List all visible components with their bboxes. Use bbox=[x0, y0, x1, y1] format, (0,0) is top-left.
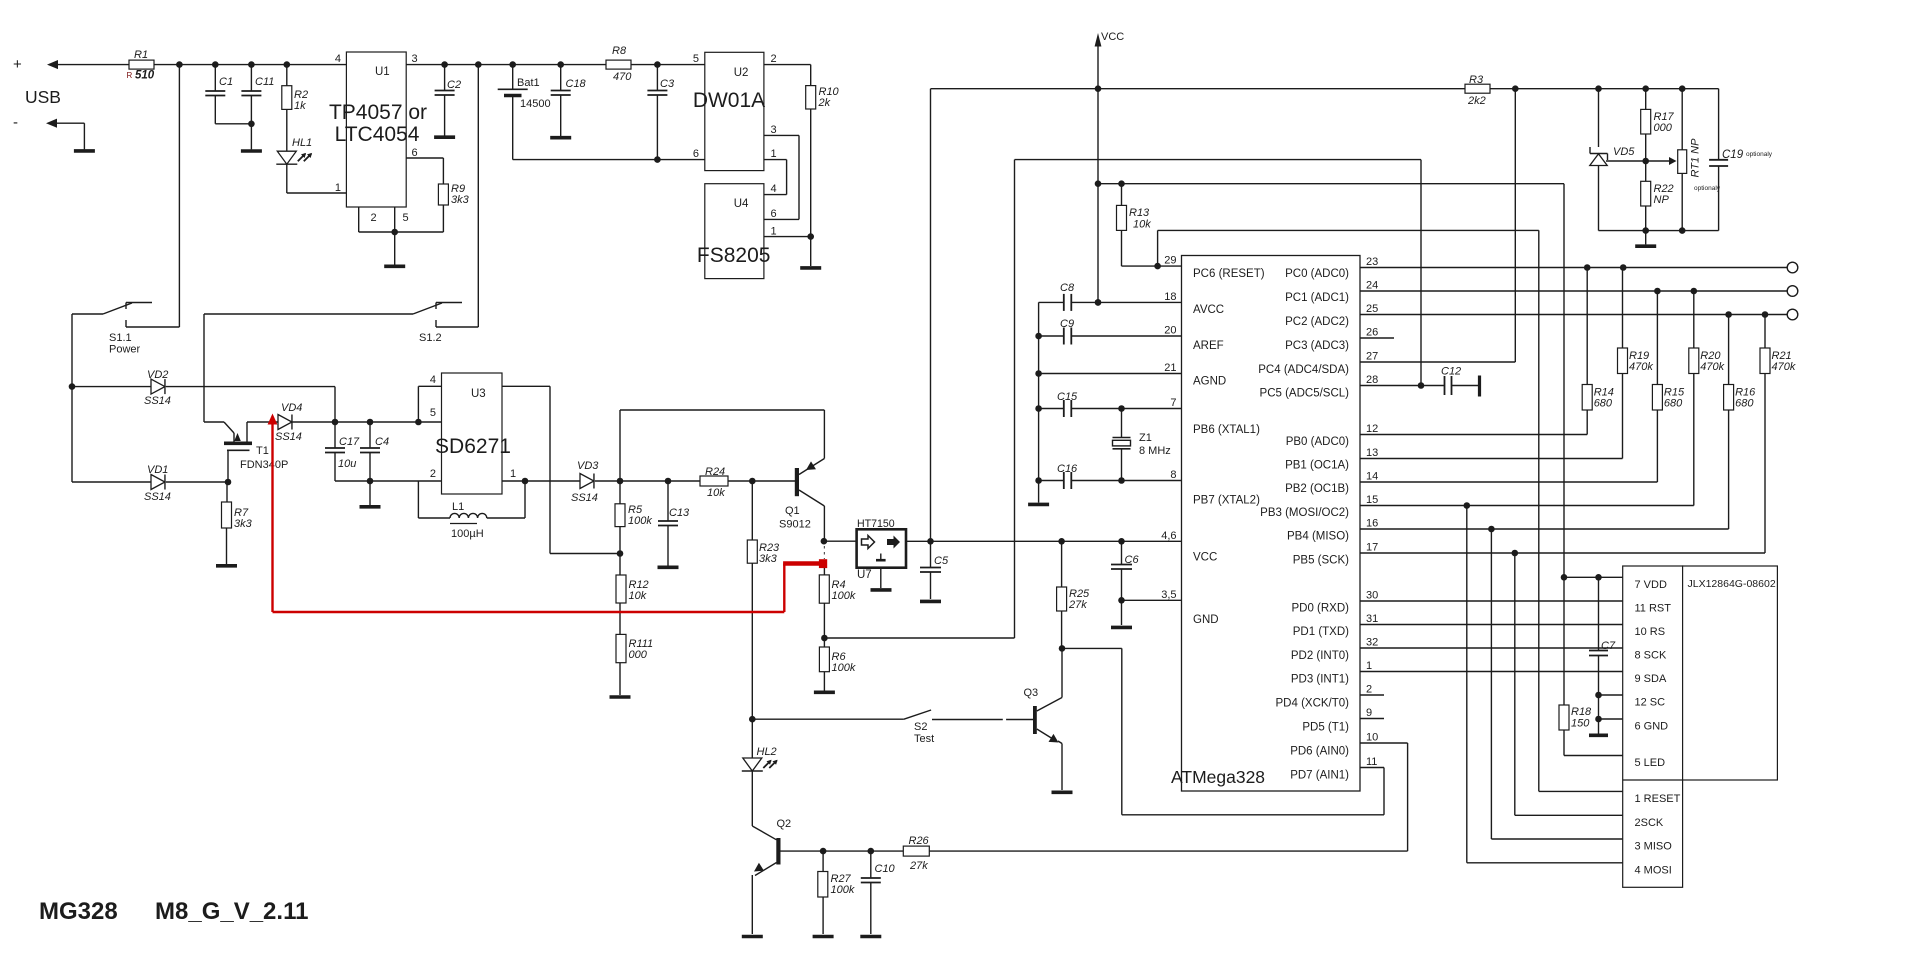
svg-text:Test: Test bbox=[914, 733, 934, 745]
svg-text:100µH: 100µH bbox=[451, 528, 484, 540]
svg-text:R3: R3 bbox=[1469, 74, 1484, 86]
svg-text:10k: 10k bbox=[629, 590, 647, 602]
svg-text:U7: U7 bbox=[857, 569, 872, 581]
svg-text:PD1 (TXD): PD1 (TXD) bbox=[1293, 626, 1349, 638]
svg-text:HL2: HL2 bbox=[757, 746, 777, 758]
svg-text:C2: C2 bbox=[447, 79, 461, 91]
svg-text:optionaly: optionaly bbox=[1694, 185, 1721, 192]
svg-text:5: 5 bbox=[403, 212, 409, 224]
svg-text:5 LED: 5 LED bbox=[1635, 757, 1666, 769]
svg-text:470k: 470k bbox=[1772, 361, 1796, 373]
svg-text:PD6 (AIN0): PD6 (AIN0) bbox=[1290, 746, 1349, 758]
svg-text:7 VDD: 7 VDD bbox=[1635, 579, 1667, 591]
svg-text:23: 23 bbox=[1366, 256, 1378, 268]
svg-text:U3: U3 bbox=[471, 388, 486, 400]
svg-text:17: 17 bbox=[1366, 542, 1378, 554]
svg-text:3,5: 3,5 bbox=[1161, 589, 1176, 601]
svg-text:C12: C12 bbox=[1441, 366, 1461, 378]
svg-text:VD4: VD4 bbox=[281, 402, 302, 414]
svg-text:10k: 10k bbox=[707, 487, 725, 499]
svg-text:+: + bbox=[13, 56, 22, 73]
svg-text:PD5 (T1): PD5 (T1) bbox=[1302, 722, 1349, 734]
svg-text:VCC: VCC bbox=[1193, 552, 1217, 564]
svg-text:9 SDA: 9 SDA bbox=[1635, 673, 1667, 685]
svg-text:Z1: Z1 bbox=[1139, 432, 1152, 444]
svg-text:1: 1 bbox=[510, 468, 516, 480]
svg-text:24: 24 bbox=[1366, 280, 1378, 292]
svg-text:6: 6 bbox=[771, 208, 777, 220]
svg-text:470k: 470k bbox=[1629, 361, 1653, 373]
svg-text:C11: C11 bbox=[255, 76, 274, 88]
svg-text:FDN340P: FDN340P bbox=[240, 459, 288, 471]
svg-text:R8: R8 bbox=[612, 45, 627, 57]
svg-text:10k: 10k bbox=[1133, 219, 1151, 231]
svg-text:15: 15 bbox=[1366, 494, 1378, 506]
svg-text:470: 470 bbox=[613, 71, 632, 83]
svg-text:1: 1 bbox=[1366, 660, 1372, 672]
svg-text:6 GND: 6 GND bbox=[1635, 721, 1669, 733]
svg-text:3: 3 bbox=[771, 124, 777, 136]
svg-text:PC1 (ADC1): PC1 (ADC1) bbox=[1285, 292, 1349, 304]
svg-text:5: 5 bbox=[693, 53, 699, 65]
svg-text:-: - bbox=[13, 114, 18, 131]
svg-text:PB0 (ADC0): PB0 (ADC0) bbox=[1286, 436, 1349, 448]
svg-text:28: 28 bbox=[1366, 374, 1378, 386]
svg-text:680: 680 bbox=[1735, 398, 1754, 410]
svg-text:optionaly: optionaly bbox=[1746, 151, 1773, 158]
svg-text:SS14: SS14 bbox=[144, 395, 171, 407]
svg-text:Power: Power bbox=[109, 344, 141, 356]
svg-text:4: 4 bbox=[771, 183, 777, 195]
svg-text:16: 16 bbox=[1366, 518, 1378, 530]
svg-text:TP4057 or: TP4057 or bbox=[329, 101, 427, 124]
svg-text:150: 150 bbox=[1571, 718, 1590, 730]
svg-text:NP: NP bbox=[1654, 194, 1670, 206]
svg-text:VD2: VD2 bbox=[147, 369, 168, 381]
svg-text:VD3: VD3 bbox=[577, 460, 599, 472]
svg-text:20: 20 bbox=[1164, 325, 1176, 337]
svg-text:SS14: SS14 bbox=[144, 491, 171, 503]
svg-text:470k: 470k bbox=[1700, 361, 1724, 373]
svg-text:SD6271: SD6271 bbox=[435, 435, 511, 458]
svg-text:PB5 (SCK): PB5 (SCK) bbox=[1293, 555, 1349, 567]
svg-text:C1: C1 bbox=[219, 76, 233, 88]
svg-text:S1.2: S1.2 bbox=[419, 332, 442, 344]
svg-text:3k3: 3k3 bbox=[234, 518, 253, 530]
svg-text:C15: C15 bbox=[1057, 391, 1078, 403]
svg-text:U4: U4 bbox=[734, 198, 749, 210]
svg-text:680: 680 bbox=[1594, 398, 1613, 410]
svg-text:25: 25 bbox=[1366, 303, 1378, 315]
svg-text:6: 6 bbox=[412, 147, 418, 159]
svg-text:C17: C17 bbox=[339, 436, 360, 448]
svg-text:PB4 (MISO): PB4 (MISO) bbox=[1287, 531, 1349, 543]
svg-text:VCC: VCC bbox=[1101, 31, 1124, 43]
svg-text:VD5: VD5 bbox=[1613, 146, 1635, 158]
svg-text:DW01A: DW01A bbox=[693, 89, 765, 112]
svg-text:PC6 (RESET): PC6 (RESET) bbox=[1193, 268, 1265, 280]
svg-text:2: 2 bbox=[371, 212, 377, 224]
svg-text:C8: C8 bbox=[1060, 282, 1075, 294]
svg-text:SS14: SS14 bbox=[275, 431, 302, 443]
svg-text:R1: R1 bbox=[134, 49, 148, 61]
svg-text:Bat1: Bat1 bbox=[517, 77, 540, 89]
svg-text:Q3: Q3 bbox=[1024, 687, 1039, 699]
svg-text:1: 1 bbox=[335, 182, 341, 194]
svg-text:3 MISO: 3 MISO bbox=[1635, 841, 1673, 853]
svg-text:8: 8 bbox=[1170, 469, 1176, 481]
svg-text:S1.1: S1.1 bbox=[109, 332, 132, 344]
svg-text:LTC4054: LTC4054 bbox=[335, 123, 420, 146]
svg-text:PD0 (RXD): PD0 (RXD) bbox=[1291, 603, 1349, 615]
svg-text:C6: C6 bbox=[1125, 554, 1140, 566]
svg-text:680: 680 bbox=[1664, 398, 1683, 410]
svg-text:AVCC: AVCC bbox=[1193, 304, 1224, 316]
svg-text:PC0 (ADC0): PC0 (ADC0) bbox=[1285, 268, 1349, 280]
svg-text:PC4 (ADC4/SDA): PC4 (ADC4/SDA) bbox=[1258, 364, 1349, 376]
svg-text:11: 11 bbox=[1366, 756, 1377, 768]
svg-text:SS14: SS14 bbox=[571, 492, 598, 504]
svg-text:2: 2 bbox=[1366, 684, 1372, 696]
svg-text:HT7150: HT7150 bbox=[857, 518, 895, 530]
svg-text:30: 30 bbox=[1366, 590, 1378, 602]
svg-text:C4: C4 bbox=[375, 436, 389, 448]
svg-text:32: 32 bbox=[1366, 637, 1378, 649]
svg-text:C13: C13 bbox=[669, 507, 690, 519]
svg-text:C19: C19 bbox=[1722, 149, 1744, 161]
svg-text:2: 2 bbox=[430, 468, 436, 480]
svg-text:C9: C9 bbox=[1060, 318, 1074, 330]
svg-text:27k: 27k bbox=[909, 860, 928, 872]
svg-text:PC5 (ADC5/SCL): PC5 (ADC5/SCL) bbox=[1260, 388, 1350, 400]
svg-text:4: 4 bbox=[335, 53, 341, 65]
svg-text:PC3 (ADC3): PC3 (ADC3) bbox=[1285, 340, 1349, 352]
svg-text:RT1 NP: RT1 NP bbox=[1690, 138, 1702, 178]
svg-text:31: 31 bbox=[1366, 613, 1378, 625]
svg-text:100k: 100k bbox=[831, 884, 855, 896]
svg-text:R24: R24 bbox=[705, 466, 725, 478]
svg-text:10u: 10u bbox=[338, 458, 356, 470]
svg-text:000: 000 bbox=[1654, 122, 1673, 134]
svg-text:14500: 14500 bbox=[520, 98, 551, 110]
svg-text:S2: S2 bbox=[914, 721, 927, 733]
svg-text:ATMega328: ATMega328 bbox=[1171, 767, 1265, 787]
svg-text:R: R bbox=[127, 71, 133, 80]
svg-text:M8_G_V_2.11: M8_G_V_2.11 bbox=[155, 898, 308, 925]
svg-text:7: 7 bbox=[1170, 397, 1176, 409]
svg-text:4: 4 bbox=[430, 374, 436, 386]
svg-text:Q2: Q2 bbox=[777, 818, 792, 830]
svg-text:10: 10 bbox=[1366, 732, 1378, 744]
svg-text:1 RESET: 1 RESET bbox=[1635, 793, 1681, 805]
svg-text:13: 13 bbox=[1366, 447, 1378, 459]
svg-text:R18: R18 bbox=[1571, 706, 1592, 718]
svg-text:000: 000 bbox=[629, 649, 648, 661]
svg-text:2k: 2k bbox=[818, 97, 831, 109]
svg-text:100k: 100k bbox=[628, 515, 652, 527]
svg-text:3k3: 3k3 bbox=[759, 553, 778, 565]
svg-text:JLX12864G-08602: JLX12864G-08602 bbox=[1688, 578, 1776, 590]
svg-text:C10: C10 bbox=[875, 863, 896, 875]
svg-text:2: 2 bbox=[771, 53, 777, 65]
svg-text:1: 1 bbox=[771, 226, 777, 238]
svg-text:PC2 (ADC2): PC2 (ADC2) bbox=[1285, 316, 1349, 328]
svg-text:Q1: Q1 bbox=[785, 505, 800, 517]
svg-text:PD3 (INT1): PD3 (INT1) bbox=[1291, 674, 1349, 686]
svg-text:PB1 (OC1A): PB1 (OC1A) bbox=[1285, 460, 1349, 472]
svg-text:AGND: AGND bbox=[1193, 376, 1226, 388]
svg-text:5: 5 bbox=[430, 407, 436, 419]
svg-text:2k2: 2k2 bbox=[1467, 95, 1486, 107]
svg-text:PD7 (AIN1): PD7 (AIN1) bbox=[1290, 770, 1349, 782]
svg-text:C18: C18 bbox=[566, 78, 587, 90]
svg-text:PB6 (XTAL1): PB6 (XTAL1) bbox=[1193, 424, 1260, 436]
svg-text:8 MHz: 8 MHz bbox=[1139, 445, 1171, 457]
svg-text:2SCK: 2SCK bbox=[1635, 817, 1664, 829]
svg-text:C5: C5 bbox=[934, 555, 949, 567]
svg-text:PD4 (XCK/T0): PD4 (XCK/T0) bbox=[1276, 698, 1350, 710]
svg-text:100k: 100k bbox=[832, 662, 856, 674]
svg-text:12: 12 bbox=[1366, 423, 1378, 435]
svg-text:100k: 100k bbox=[832, 590, 856, 602]
svg-text:USB: USB bbox=[25, 87, 61, 107]
svg-text:9: 9 bbox=[1366, 707, 1372, 719]
svg-text:L1: L1 bbox=[452, 501, 464, 513]
svg-text:U2: U2 bbox=[734, 67, 749, 79]
svg-text:U1: U1 bbox=[375, 66, 390, 78]
svg-text:12 SC: 12 SC bbox=[1635, 697, 1666, 709]
svg-text:R26: R26 bbox=[909, 835, 930, 847]
svg-text:GND: GND bbox=[1193, 614, 1219, 626]
svg-text:MG328: MG328 bbox=[39, 898, 118, 925]
svg-text:27k: 27k bbox=[1068, 599, 1087, 611]
svg-text:C16: C16 bbox=[1057, 463, 1078, 475]
svg-text:510: 510 bbox=[135, 70, 155, 82]
svg-text:4 MOSI: 4 MOSI bbox=[1635, 864, 1672, 876]
svg-text:T1: T1 bbox=[256, 445, 269, 457]
svg-text:1: 1 bbox=[771, 148, 777, 160]
svg-text:PB2 (OC1B): PB2 (OC1B) bbox=[1285, 483, 1349, 495]
svg-text:S9012: S9012 bbox=[779, 519, 811, 531]
svg-text:FS8205: FS8205 bbox=[697, 244, 771, 267]
svg-text:10 RS: 10 RS bbox=[1635, 626, 1666, 638]
svg-text:3: 3 bbox=[412, 53, 418, 65]
svg-text:AREF: AREF bbox=[1193, 340, 1224, 352]
svg-text:21: 21 bbox=[1164, 362, 1176, 374]
svg-text:PB3 (MOSI/OC2): PB3 (MOSI/OC2) bbox=[1260, 507, 1349, 519]
svg-text:8 SCK: 8 SCK bbox=[1635, 650, 1667, 662]
svg-text:R13: R13 bbox=[1129, 207, 1150, 219]
svg-text:4,6: 4,6 bbox=[1161, 530, 1176, 542]
svg-text:29: 29 bbox=[1164, 255, 1176, 267]
svg-text:1k: 1k bbox=[294, 100, 306, 112]
svg-text:26: 26 bbox=[1366, 327, 1378, 339]
svg-text:VD1: VD1 bbox=[147, 464, 168, 476]
svg-text:HL1: HL1 bbox=[292, 137, 312, 149]
svg-text:C3: C3 bbox=[660, 78, 675, 90]
svg-text:C7: C7 bbox=[1601, 640, 1616, 652]
svg-text:6: 6 bbox=[693, 148, 699, 160]
svg-text:27: 27 bbox=[1366, 351, 1378, 363]
svg-text:PD2 (INT0): PD2 (INT0) bbox=[1291, 650, 1349, 662]
svg-text:14: 14 bbox=[1366, 471, 1378, 483]
svg-text:3k3: 3k3 bbox=[451, 194, 470, 206]
svg-text:11 RST: 11 RST bbox=[1635, 603, 1672, 615]
svg-text:18: 18 bbox=[1164, 291, 1176, 303]
svg-text:PB7 (XTAL2): PB7 (XTAL2) bbox=[1193, 495, 1260, 507]
